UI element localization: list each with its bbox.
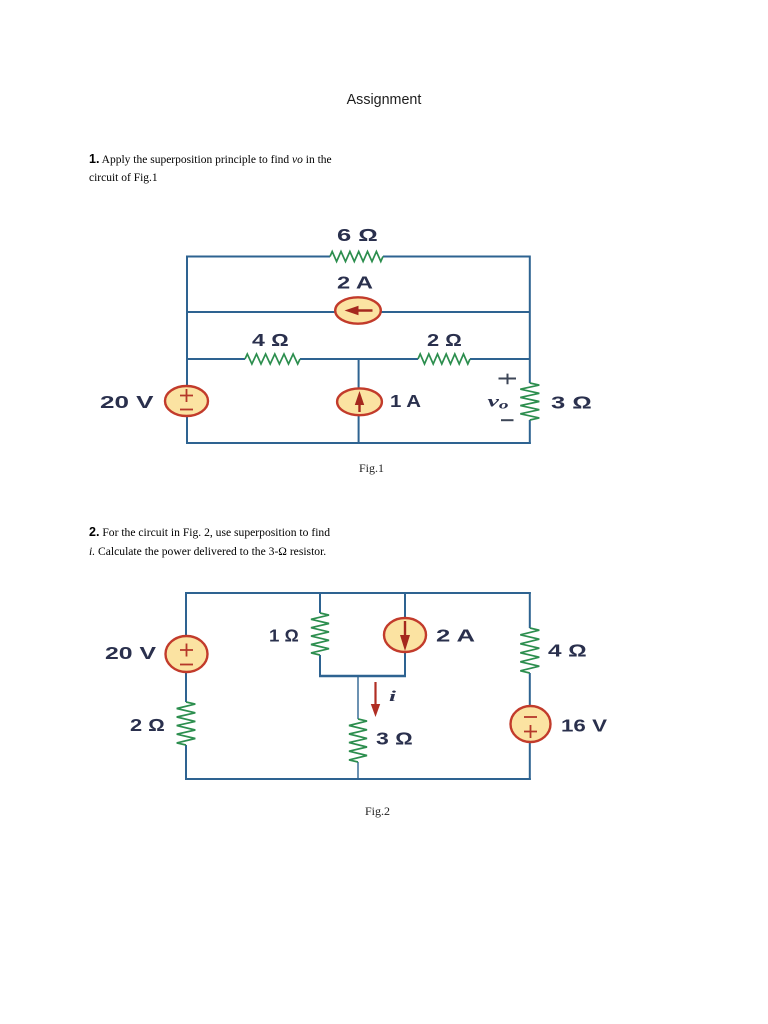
wire fig1 bottom xyxy=(186,442,531,444)
current source 2A fig1 xyxy=(335,297,381,323)
svg-text:1 Ω: 1 Ω xyxy=(269,626,299,646)
voltage source 16V fig2 xyxy=(511,706,551,742)
current source 2A fig2 xyxy=(384,618,426,652)
caption Fig.1 xyxy=(359,461,384,476)
resistor R 3-ohm fig2 (vertical) xyxy=(349,719,367,762)
title xyxy=(0,92,768,108)
svg-text:i: i xyxy=(389,689,397,705)
svg-text:20 V: 20 V xyxy=(100,392,154,412)
caption Fig.2 xyxy=(365,804,390,819)
wire fig2 left vertical xyxy=(185,592,187,780)
svg-text:2 A: 2 A xyxy=(337,273,373,293)
svg-text:4 Ω: 4 Ω xyxy=(548,641,587,661)
wire fig1 right vertical xyxy=(529,256,531,445)
wire fig1 left vertical xyxy=(186,256,188,445)
resistor R 3-ohm fig1 (vertical) xyxy=(520,383,539,420)
svg-text:1 A: 1 A xyxy=(390,391,421,411)
node vo minus sign xyxy=(501,419,514,421)
wire fig1 middle vertical (1A branch) xyxy=(358,359,360,444)
voltage source 20V fig1 xyxy=(165,386,208,416)
svg-text:4 Ω: 4 Ω xyxy=(252,330,289,350)
svg-text:3 Ω: 3 Ω xyxy=(376,729,413,749)
svg-text:20 V: 20 V xyxy=(105,643,156,663)
svg-text:2 Ω: 2 Ω xyxy=(130,715,165,735)
node vo plus sign xyxy=(499,374,517,385)
wire fig2 inner left vertical (1-ohm branch) xyxy=(319,593,321,677)
wire fig1 row3 (4-ohm / 2-ohm row) xyxy=(187,358,530,360)
resistor R 6-ohm xyxy=(330,252,383,262)
wire fig2 inner right vertical (2A branch) xyxy=(404,593,406,677)
resistor R 2-ohm fig2 (vertical) xyxy=(177,702,196,745)
problem 2 text xyxy=(89,523,399,561)
wire fig2 top xyxy=(186,592,531,594)
svg-text:3 Ω: 3 Ω xyxy=(551,393,592,413)
svg-text:6 Ω: 6 Ω xyxy=(337,225,378,245)
resistor R 1-ohm fig2 (vertical) xyxy=(311,613,329,655)
wire fig2 bottom xyxy=(186,778,531,780)
svg-text:2 Ω: 2 Ω xyxy=(427,330,462,350)
voltage source 20V fig2 xyxy=(166,636,208,672)
wire fig1 row2 (2A branch) xyxy=(187,311,530,313)
wire fig2 right vertical xyxy=(529,592,531,780)
svg-text:2 A: 2 A xyxy=(436,626,476,646)
resistor R 4-ohm fig2 (vertical) xyxy=(520,628,539,673)
resistor R 4-ohm xyxy=(245,354,300,364)
svg-text:16 V: 16 V xyxy=(561,716,607,736)
problem 1 text xyxy=(89,151,349,188)
wire fig2 middle vertical (3-ohm branch) xyxy=(357,677,359,780)
wire fig2 inner horizontal xyxy=(319,675,406,678)
resistor R 2-ohm xyxy=(418,354,470,364)
current arrow i fig2 xyxy=(371,682,380,717)
svg-text:vo: vo xyxy=(488,394,509,412)
current source 1A fig1 xyxy=(337,388,382,415)
wire fig1 top (6-ohm row) xyxy=(187,256,530,258)
